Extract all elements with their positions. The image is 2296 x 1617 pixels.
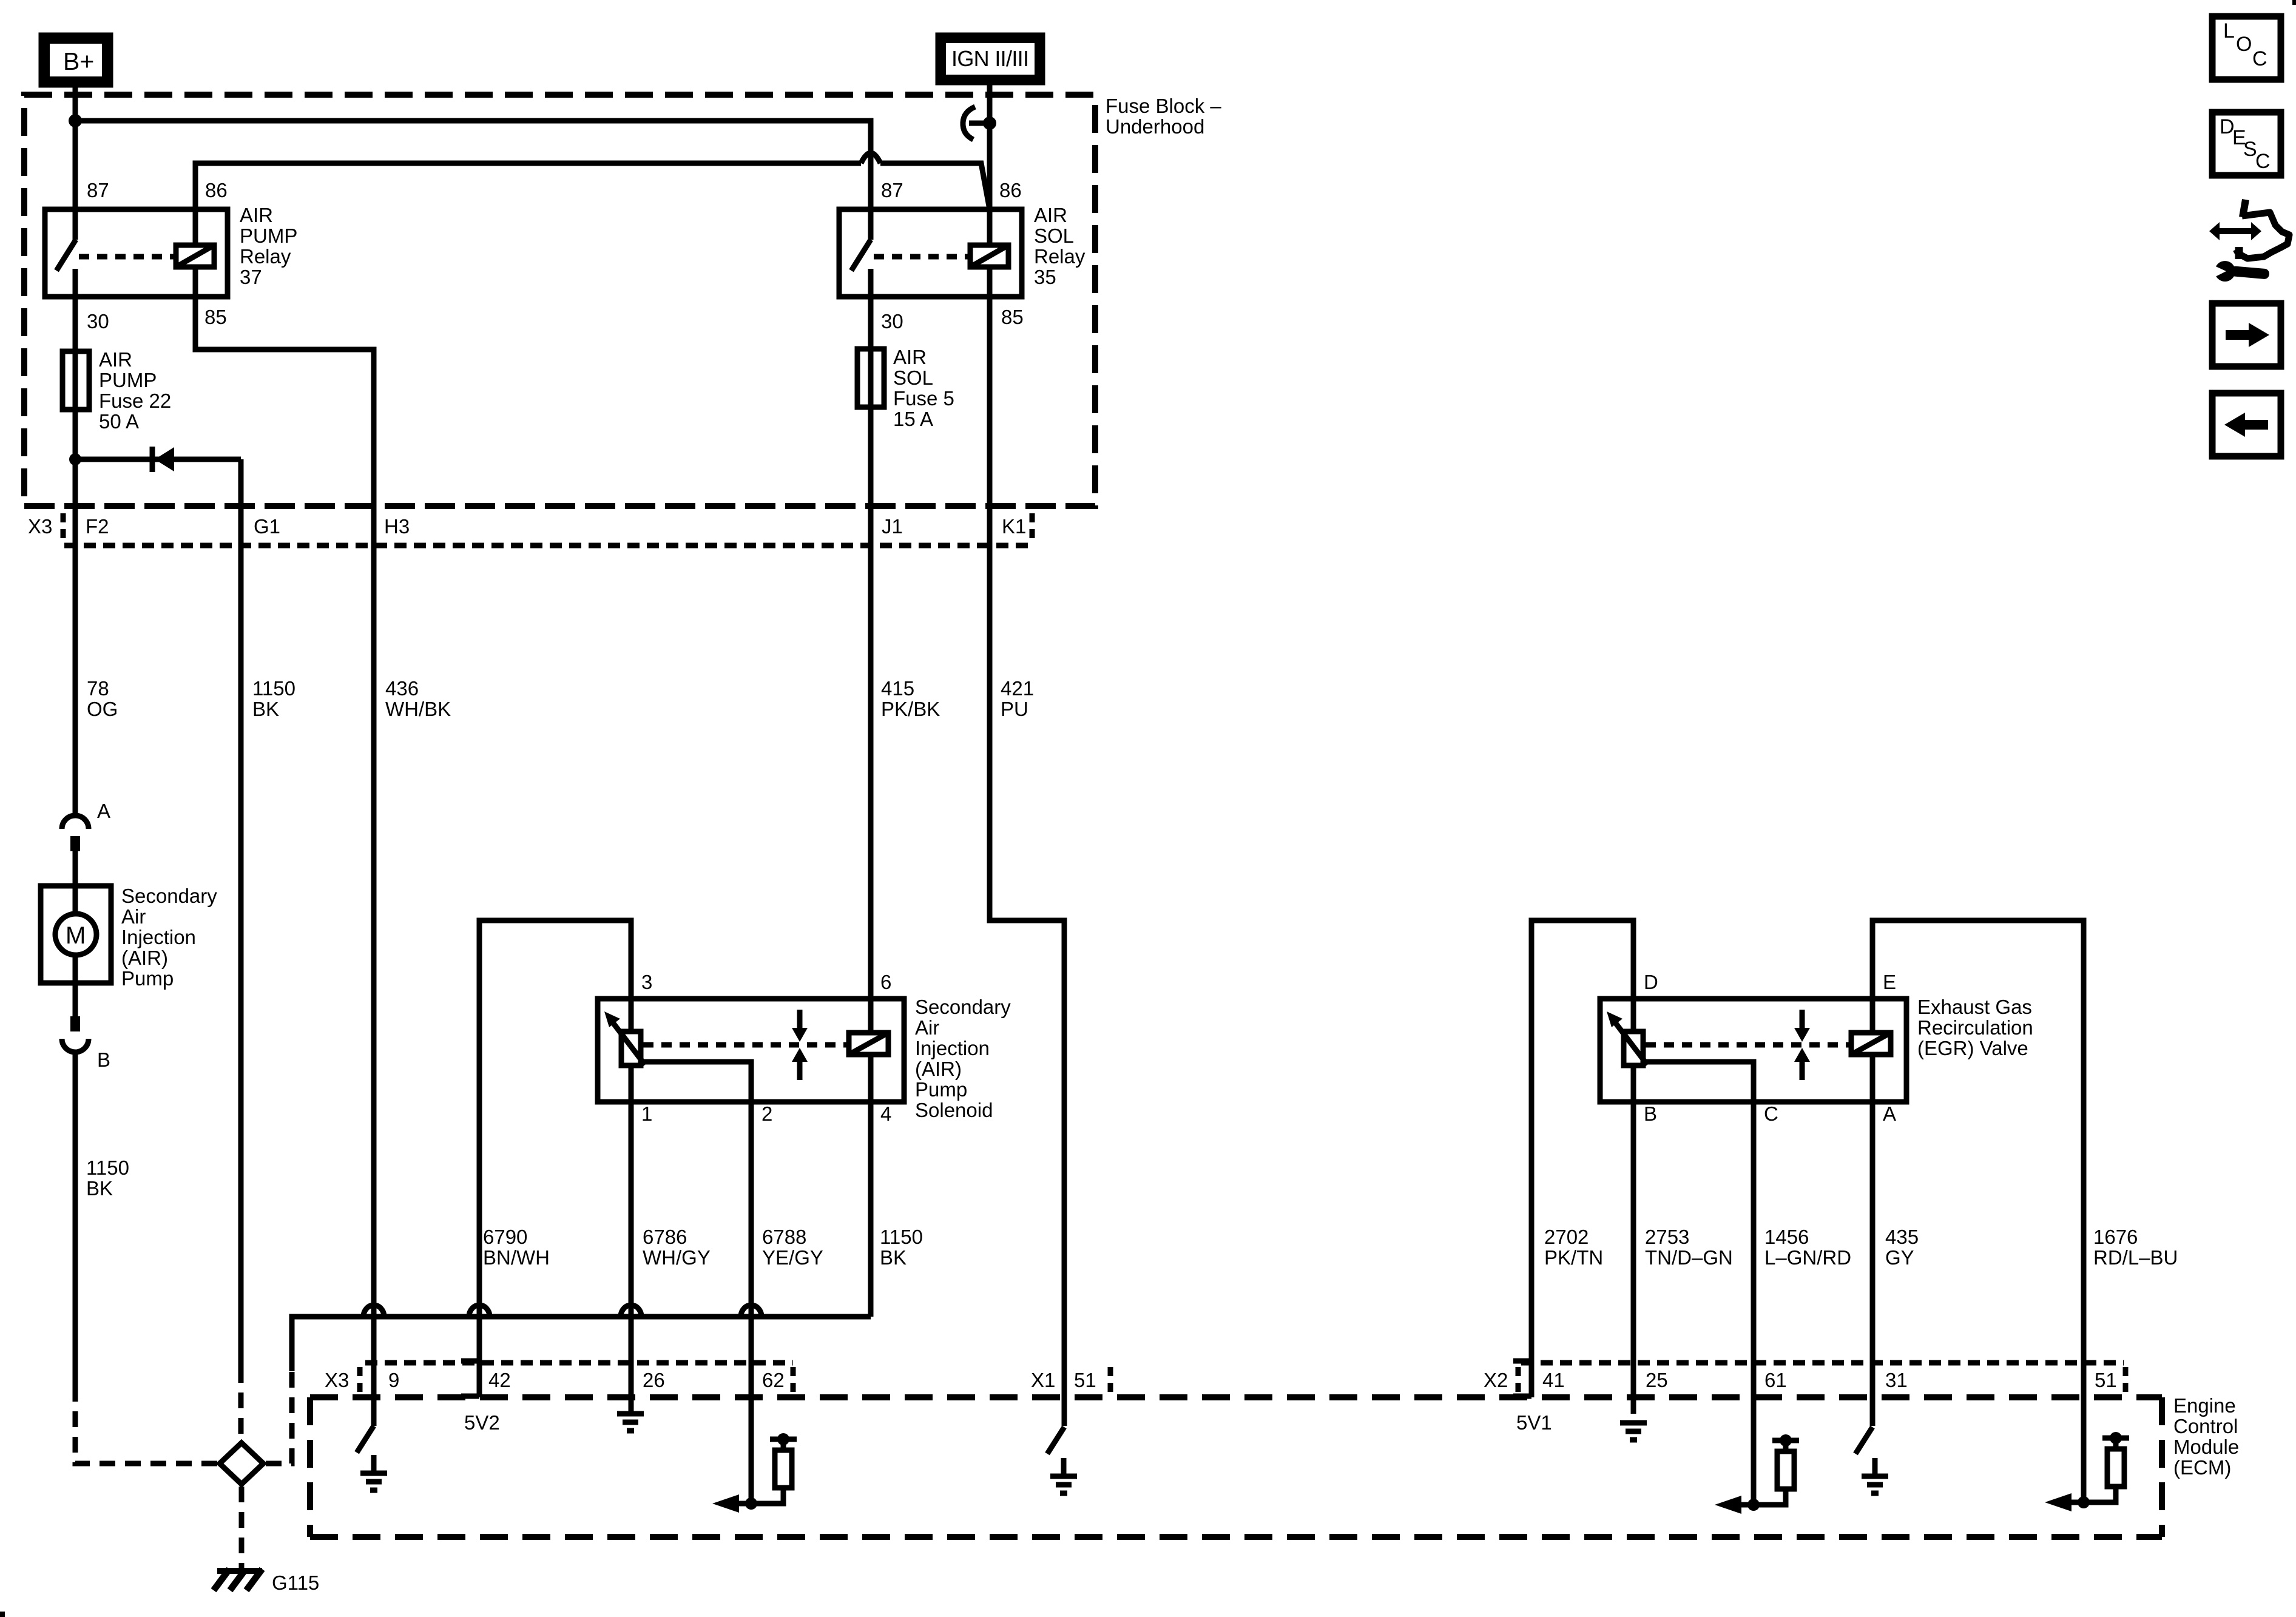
wire label 78 OG	[87, 677, 118, 720]
relay 35 coil	[970, 245, 1008, 545]
AIR pump motor circle	[55, 914, 96, 955]
svg-text:51: 51	[2095, 1369, 2117, 1391]
svg-text:Secondary: Secondary	[915, 996, 1011, 1018]
wire 421 PU from relay35 pin85 to ECM X1-51	[990, 545, 1064, 1426]
corner artifact top right	[2292, 0, 2296, 5]
svg-text:(AIR): (AIR)	[915, 1058, 962, 1080]
icon arrow right	[2212, 303, 2281, 366]
ECM row labels	[325, 1369, 2117, 1391]
svg-text:BK: BK	[880, 1246, 907, 1269]
svg-text:PUMP: PUMP	[240, 224, 297, 247]
relay 37 name	[240, 204, 297, 288]
relay 35 box	[839, 209, 1022, 297]
svg-text:4: 4	[880, 1102, 891, 1125]
connector B terminal	[70, 1016, 80, 1031]
svg-text:Pump: Pump	[121, 967, 174, 990]
svg-text:C: C	[2252, 47, 2267, 70]
wire B+ to relay 35 pin 87	[75, 121, 871, 240]
svg-text:RD/L–BU: RD/L–BU	[2093, 1246, 2178, 1269]
svg-text:YE/GY: YE/GY	[762, 1246, 823, 1269]
ECM connector row top line right segment	[1521, 1360, 2124, 1366]
ground G115 symbol	[214, 1569, 262, 1590]
wire label 1150 BK solenoid	[880, 1226, 923, 1269]
svg-text:Exhaust Gas: Exhaust Gas	[1917, 996, 2032, 1018]
ECM box bottom edge	[310, 1534, 2162, 1540]
solenoid regulator symbol	[604, 999, 645, 1102]
svg-text:B: B	[97, 1048, 110, 1071]
svg-text:X3: X3	[28, 515, 52, 538]
wire label 6790 BN/WH	[483, 1226, 550, 1269]
svg-text:BK: BK	[252, 698, 279, 720]
wire 6788 YE/GY solenoid pin2 to ECM 62	[749, 1102, 754, 1504]
ground bus line with hops	[292, 1305, 871, 1371]
svg-text:O: O	[2236, 33, 2252, 56]
svg-text:1150: 1150	[86, 1156, 129, 1179]
svg-text:436: 436	[385, 677, 419, 700]
svg-text:37: 37	[240, 266, 262, 288]
EGR valve arrows	[1794, 1010, 1810, 1080]
svg-text:Underhood: Underhood	[1106, 115, 1204, 138]
svg-text:BK: BK	[86, 1177, 113, 1200]
svg-text:F2: F2	[86, 515, 109, 538]
solenoid valve arrows	[792, 1010, 808, 1080]
svg-text:1150: 1150	[880, 1226, 923, 1248]
top band labels	[28, 515, 1026, 538]
ECM connector row bottom line	[310, 1394, 2162, 1400]
wire below pump	[73, 955, 78, 1016]
svg-text:K1: K1	[1002, 515, 1026, 538]
svg-text:Module: Module	[2173, 1436, 2239, 1458]
wire label 1456 L-GN/RD	[1764, 1226, 1851, 1269]
svg-text:Air: Air	[915, 1016, 939, 1039]
power feed IGN II/III	[938, 35, 1042, 83]
svg-text:25: 25	[1646, 1369, 1668, 1391]
svg-text:5V1: 5V1	[1516, 1411, 1552, 1434]
svg-text:G115: G115	[272, 1571, 319, 1594]
ECM box left edge	[307, 1397, 313, 1537]
wire 435 GY EGR pin A to ECM 31	[1870, 1102, 1876, 1426]
EGR pin D wire loop to ECM 41	[1531, 920, 1633, 1397]
AIR pump solenoid box	[598, 999, 904, 1102]
svg-text:GY: GY	[1885, 1246, 1914, 1269]
relay 37 switch	[56, 240, 76, 271]
relay 35 switch	[851, 240, 871, 271]
top band separator after X3	[61, 513, 66, 545]
fuse block - underhood box	[24, 95, 1095, 506]
svg-text:86: 86	[205, 179, 228, 201]
EGR actuator dashed link	[1646, 1042, 1851, 1048]
relay 37 box	[45, 209, 228, 297]
svg-text:M: M	[66, 922, 86, 949]
ECM row separator after X1 51	[1108, 1367, 1113, 1394]
svg-text:PU: PU	[1001, 698, 1028, 720]
svg-text:C: C	[1764, 1102, 1778, 1125]
svg-text:Recirculation: Recirculation	[1917, 1016, 2033, 1039]
ECM pin 25 ground	[1620, 1423, 1647, 1440]
wire label 2702 PK/TN	[1544, 1226, 1603, 1269]
svg-text:Injection: Injection	[915, 1037, 990, 1059]
top connector band bottom line	[64, 543, 1030, 549]
wire label 436 WH/BK	[385, 677, 451, 720]
svg-text:415: 415	[881, 677, 914, 700]
svg-text:26: 26	[643, 1369, 665, 1391]
wire label 2753 TN/D-GN	[1645, 1226, 1733, 1269]
EGR pin E wire loop to ECM X2-51	[1872, 920, 2084, 1502]
svg-text:Air: Air	[121, 905, 146, 928]
fuse 22	[62, 351, 89, 815]
svg-text:C: C	[2255, 150, 2271, 173]
svg-text:J1: J1	[882, 515, 903, 538]
svg-text:35: 35	[1034, 266, 1056, 288]
wire IGN II/III down to relay 35 pin 86	[987, 83, 993, 245]
svg-text:Relay: Relay	[240, 245, 291, 268]
svg-text:6790: 6790	[483, 1226, 527, 1248]
svg-text:1456: 1456	[1764, 1226, 1809, 1248]
solenoid coil	[849, 999, 888, 1102]
wire B+ down	[73, 85, 78, 240]
svg-text:(ECM): (ECM)	[2173, 1456, 2231, 1479]
node splice on IGN wire	[983, 116, 996, 130]
svg-text:2702: 2702	[1544, 1226, 1589, 1248]
svg-text:Fuse 5: Fuse 5	[893, 387, 954, 410]
svg-text:Fuse Block –: Fuse Block –	[1106, 95, 1221, 117]
ECM X2-51 pull-up circuit	[2045, 1432, 2129, 1511]
wire label 1150 BK	[252, 677, 295, 720]
svg-text:X1: X1	[1031, 1369, 1055, 1391]
wire 6786 WH/GY solenoid pin1 to ECM 26	[629, 1102, 634, 1414]
relay 37 coil	[176, 245, 214, 342]
node splice under B+	[69, 114, 82, 127]
svg-text:3: 3	[641, 971, 652, 993]
top connector band X3 top line	[24, 503, 1095, 509]
wire 1150 BK pump ground	[73, 1052, 78, 1386]
wire label 1676 RD/L-BU	[2093, 1226, 2178, 1269]
svg-text:6788: 6788	[762, 1226, 806, 1248]
ECM row separator after 62	[791, 1367, 796, 1394]
svg-text:WH/BK: WH/BK	[385, 698, 451, 720]
ECM X1-51 ground	[1050, 1458, 1077, 1493]
ECM row separator after X2 51	[2123, 1367, 2129, 1394]
svg-text:2: 2	[761, 1102, 772, 1125]
svg-text:51: 51	[1074, 1369, 1096, 1391]
svg-text:B+: B+	[63, 47, 94, 75]
wire relay37 pin86 to IGN branch	[195, 153, 990, 245]
svg-text:SOL: SOL	[893, 366, 933, 389]
node splice at fuse 22 output	[69, 453, 81, 465]
svg-text:2753: 2753	[1645, 1226, 1689, 1248]
relay 37 actuator dashed link	[79, 254, 175, 260]
svg-text:Control: Control	[2173, 1415, 2238, 1437]
solenoid name	[915, 996, 1011, 1121]
svg-text:61: 61	[1764, 1369, 1787, 1391]
svg-text:1676: 1676	[2093, 1226, 2138, 1248]
relay 37 pin30 stub	[73, 269, 78, 351]
ECM connector row top line left segment	[365, 1360, 793, 1366]
svg-text:(AIR): (AIR)	[121, 947, 168, 969]
pin 41 terminal feet	[1513, 1361, 1531, 1396]
svg-text:B: B	[1644, 1102, 1657, 1125]
EGR valve box	[1600, 999, 1906, 1102]
svg-text:435: 435	[1885, 1226, 1919, 1248]
svg-text:L: L	[2223, 19, 2235, 42]
svg-text:PK/BK: PK/BK	[881, 698, 940, 720]
EGR coil	[1851, 999, 1891, 1102]
relay 35 pin labels	[881, 179, 1024, 333]
AIR pump name	[121, 885, 217, 990]
EGR pin labels	[1644, 971, 1896, 1125]
svg-text:OG: OG	[87, 698, 118, 720]
svg-text:Secondary: Secondary	[121, 885, 217, 907]
wire label 435 GY	[1885, 1226, 1919, 1269]
connector A arc	[62, 815, 89, 829]
ECM pin 9 switch	[357, 1426, 374, 1453]
solenoid actuator dashed link	[643, 1042, 849, 1048]
svg-text:PK/TN: PK/TN	[1544, 1246, 1603, 1269]
ECM pin 31 ground	[1862, 1458, 1888, 1493]
svg-text:(EGR) Valve: (EGR) Valve	[1917, 1037, 2028, 1059]
connector clip symbol at IGN splice	[963, 107, 990, 140]
splice diamond	[220, 1443, 263, 1484]
svg-text:Pump: Pump	[915, 1078, 967, 1101]
dashed run diamond to G115	[239, 1487, 245, 1568]
EGR regulator symbol	[1607, 999, 1647, 1102]
svg-text:Fuse 22: Fuse 22	[99, 390, 171, 412]
connector A terminal	[70, 836, 80, 851]
icon DESC	[2212, 112, 2281, 175]
svg-text:AIR: AIR	[99, 348, 132, 371]
solenoid link to pin 2	[638, 1062, 751, 1102]
svg-text:1: 1	[641, 1102, 652, 1125]
svg-text:87: 87	[87, 179, 109, 201]
svg-text:Relay: Relay	[1034, 245, 1086, 268]
svg-text:78: 78	[87, 677, 109, 700]
connector B arc	[62, 1039, 89, 1052]
relay 35 actuator dashed link	[874, 254, 969, 260]
wire 1150 BK solenoid pin4 ground	[868, 1102, 874, 1317]
wire to pump	[73, 851, 78, 914]
ECM pin 26 ground	[617, 1414, 644, 1431]
svg-text:6786: 6786	[643, 1226, 687, 1248]
ECM pin 62 pull-up circuit	[712, 1433, 797, 1513]
ECM name	[2173, 1394, 2239, 1479]
svg-text:85: 85	[1001, 306, 1024, 328]
svg-text:WH/GY: WH/GY	[643, 1246, 711, 1269]
wire 2753 TN/D-GN EGR pin B to ECM 25	[1631, 1102, 1636, 1414]
ECM box right edge	[2159, 1397, 2165, 1537]
wire label 421 PU	[1001, 677, 1034, 720]
fuse 5 label	[893, 346, 954, 430]
svg-text:A: A	[1883, 1102, 1896, 1125]
svg-text:E: E	[1883, 971, 1896, 993]
svg-text:AIR: AIR	[1034, 204, 1067, 226]
svg-text:50 A: 50 A	[99, 410, 139, 433]
wire label 6788 YE/GY	[762, 1226, 823, 1269]
EGR name	[1917, 996, 2033, 1059]
svg-text:41: 41	[1542, 1369, 1565, 1391]
wire 1150 BK from diode down (G1)	[238, 459, 244, 1367]
ECM pin 9 ground	[360, 1455, 387, 1490]
power feed B+	[41, 35, 110, 85]
wire label 1150 BK pump	[86, 1156, 129, 1200]
svg-text:85: 85	[204, 306, 227, 328]
svg-text:X2: X2	[1484, 1369, 1508, 1391]
svg-text:X3: X3	[325, 1369, 349, 1391]
fuse block label	[1106, 95, 1221, 138]
EGR link to pin C	[1641, 1062, 1754, 1102]
svg-text:6: 6	[880, 971, 891, 993]
svg-text:TN/D–GN: TN/D–GN	[1645, 1246, 1733, 1269]
svg-text:86: 86	[999, 179, 1022, 201]
diode D1	[75, 447, 241, 472]
relay 37 pin labels	[87, 179, 228, 333]
corner artifact bottom left	[0, 1612, 5, 1617]
svg-text:D: D	[1644, 971, 1658, 993]
svg-text:BN/WH: BN/WH	[483, 1246, 550, 1269]
svg-text:5V2: 5V2	[464, 1411, 500, 1434]
ECM pin 31 switch	[1855, 1427, 1872, 1454]
relay 35 pin30 stub	[868, 269, 874, 349]
wire label 6786 WH/GY	[643, 1226, 711, 1269]
dashed ground run from G1 wire	[238, 1367, 244, 1440]
svg-text:A: A	[97, 800, 110, 822]
wire 1456 L-GN/RD EGR pin C to ECM 61	[1751, 1102, 1757, 1505]
ECM X1-51 switch	[1047, 1427, 1064, 1454]
svg-text:H3: H3	[384, 515, 410, 538]
icon arrow left	[2212, 393, 2281, 456]
svg-text:IGN II/III: IGN II/III	[951, 46, 1029, 71]
solenoid pin 3 wire loop	[479, 920, 631, 1397]
AIR pump box	[41, 886, 111, 983]
ECM row separator after X3	[357, 1367, 363, 1394]
dashed ground run from pump	[75, 1386, 218, 1463]
svg-text:15 A: 15 A	[893, 408, 933, 430]
icon tool with arrows	[2209, 200, 2289, 282]
svg-text:62: 62	[762, 1369, 785, 1391]
svg-text:30: 30	[87, 310, 109, 333]
svg-text:Engine: Engine	[2173, 1394, 2236, 1417]
svg-text:421: 421	[1001, 677, 1034, 700]
wire label 415 PK/BK	[881, 677, 940, 720]
pin 42 terminal feet	[461, 1361, 479, 1396]
svg-text:42: 42	[488, 1369, 511, 1391]
svg-text:9: 9	[388, 1369, 399, 1391]
wire 436 WH/BK from relay37 pin85 to ECM pin 9	[195, 297, 374, 1426]
ECM pin 61 pull-up circuit	[1715, 1434, 1799, 1514]
icon LOC	[2212, 16, 2281, 79]
svg-text:PUMP: PUMP	[99, 369, 157, 391]
svg-text:87: 87	[881, 179, 903, 201]
relay 35 name	[1034, 204, 1086, 288]
fuse 22 label	[99, 348, 171, 433]
svg-text:Solenoid: Solenoid	[915, 1099, 993, 1121]
fuse 5	[857, 349, 884, 999]
svg-text:30: 30	[881, 310, 903, 333]
ECM row separator after X2	[1516, 1367, 1521, 1394]
svg-text:L–GN/RD: L–GN/RD	[1764, 1246, 1851, 1269]
svg-text:G1: G1	[254, 515, 280, 538]
top band separator after K1	[1030, 513, 1035, 545]
svg-text:Injection: Injection	[121, 926, 196, 948]
svg-text:31: 31	[1885, 1369, 1908, 1391]
svg-text:AIR: AIR	[240, 204, 273, 226]
solenoid pin labels	[641, 971, 891, 1125]
svg-text:SOL: SOL	[1034, 224, 1074, 247]
dashed ground run right of diamond	[266, 1371, 292, 1463]
svg-text:1150: 1150	[252, 677, 295, 700]
svg-text:AIR: AIR	[893, 346, 927, 368]
